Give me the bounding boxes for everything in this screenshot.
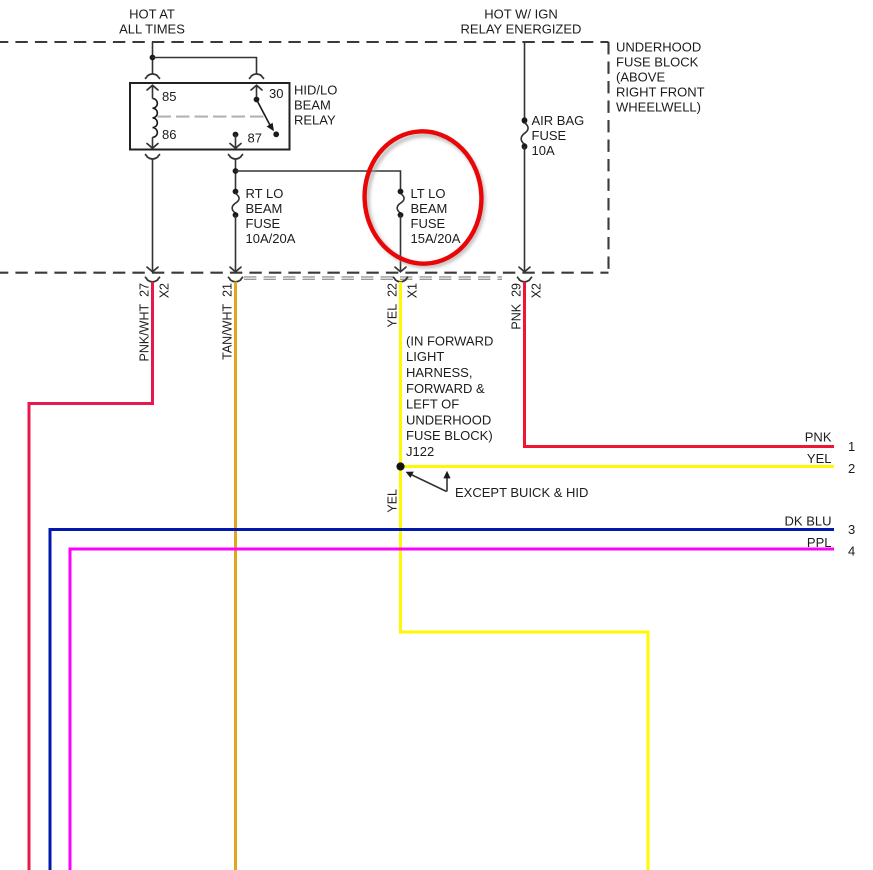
svg-text:YEL: YEL	[807, 451, 832, 466]
svg-text:FUSE BLOCK: FUSE BLOCK	[616, 55, 699, 70]
svg-text:10A: 10A	[532, 143, 555, 158]
wire PNK/WHT	[29, 282, 153, 870]
red annotation ellipse around LT LO BEAM FUSE	[361, 128, 485, 266]
svg-text:PNK 29: PNK 29	[510, 283, 524, 330]
connector cup exit 22	[393, 277, 408, 282]
connector above pin 85	[145, 74, 160, 79]
connector below pin 87	[228, 154, 243, 159]
svg-text:RELAY ENERGIZED: RELAY ENERGIZED	[461, 22, 582, 37]
wire branch to LT LO fuse	[236, 171, 401, 192]
svg-text:FUSE: FUSE	[411, 216, 446, 231]
svg-text:WHEELWELL): WHEELWELL)	[616, 100, 701, 115]
connector cup exit 27	[145, 277, 160, 282]
svg-text:TAN/WHT 21: TAN/WHT 21	[221, 283, 235, 360]
wire LT fuse to exit	[400, 215, 402, 271]
arrow to splice (EXCEPT BUICK & HID)	[411, 475, 447, 492]
wire RT fuse to exit	[235, 215, 237, 271]
svg-text:(ABOVE: (ABOVE	[616, 70, 665, 85]
node J to LT fuse	[233, 168, 239, 174]
wire air bag fuse to exit	[524, 147, 526, 271]
connector cup exit 29	[517, 277, 532, 282]
svg-text:AIR BAG: AIR BAG	[532, 113, 585, 128]
svg-text:YEL: YEL	[386, 489, 400, 513]
connector-row gray double dashed line	[244, 276, 502, 278]
svg-text:RELAY: RELAY	[294, 113, 336, 128]
svg-text:YEL 22: YEL 22	[386, 283, 400, 328]
pin 86	[152, 137, 154, 148]
svg-text:X1: X1	[406, 283, 420, 298]
arrow to YEL wire (EXCEPT BUICK & HID)	[446, 477, 448, 492]
wire PNK to pin 1	[525, 282, 835, 447]
connector below pin 86	[145, 154, 160, 159]
svg-text:RIGHT FRONT: RIGHT FRONT	[616, 85, 705, 100]
svg-text:87: 87	[248, 131, 262, 146]
wire YEL main	[401, 282, 649, 870]
wire pin86 to fuse block exit	[152, 159, 154, 271]
svg-text:LT LO: LT LO	[411, 186, 446, 201]
wire TAN/WHT	[234, 282, 237, 870]
underhood fuse block dashed border right	[607, 42, 609, 273]
svg-text:HID/LO: HID/LO	[294, 83, 337, 98]
relay switch blade	[257, 100, 270, 125]
svg-text:LEFT OF: LEFT OF	[406, 397, 459, 412]
pin 30	[256, 85, 258, 99]
red annotation ellipse shadow	[364, 132, 487, 269]
node junction above relay	[150, 55, 156, 61]
fuse AIR BAG 10A	[521, 117, 528, 149]
svg-text:86: 86	[162, 127, 176, 142]
pin 85	[152, 85, 154, 98]
node J122 splice	[396, 462, 404, 470]
svg-text:85: 85	[162, 89, 176, 104]
svg-text:PNK/WHT 27: PNK/WHT 27	[138, 283, 152, 362]
svg-text:HOT AT: HOT AT	[129, 7, 175, 22]
svg-text:3: 3	[848, 522, 855, 537]
svg-text:15A/20A: 15A/20A	[411, 231, 461, 246]
svg-text:FUSE: FUSE	[246, 216, 281, 231]
svg-text:HARNESS,: HARNESS,	[406, 365, 472, 380]
svg-text:RT LO: RT LO	[246, 186, 284, 201]
svg-text:10A/20A: 10A/20A	[246, 231, 296, 246]
svg-text:LIGHT: LIGHT	[406, 349, 444, 364]
wire pin87 down to RT LO fuse	[235, 159, 237, 192]
svg-text:30: 30	[269, 86, 283, 101]
svg-text:FUSE BLOCK): FUSE BLOCK)	[406, 428, 493, 443]
svg-text:HOT W/ IGN: HOT W/ IGN	[484, 7, 557, 22]
fuse LT LO BEAM 15A/20A	[397, 189, 404, 218]
svg-text:BEAM: BEAM	[411, 201, 448, 216]
svg-text:DK BLU: DK BLU	[785, 513, 832, 528]
relay coil	[153, 99, 158, 138]
svg-text:UNDERHOOD: UNDERHOOD	[616, 40, 701, 55]
svg-text:ALL TIMES: ALL TIMES	[119, 22, 185, 37]
svg-text:4: 4	[848, 544, 855, 559]
wire YEL branch to pin 2	[401, 465, 835, 468]
pin 87	[233, 132, 239, 138]
connector cup exit 21	[228, 277, 243, 282]
svg-text:(IN FORWARD: (IN FORWARD	[406, 333, 493, 348]
wire from hot-at-all-times into relay pin 85	[152, 42, 154, 74]
svg-text:BEAM: BEAM	[246, 201, 283, 216]
svg-text:X2: X2	[530, 283, 544, 298]
svg-text:FORWARD &: FORWARD &	[406, 381, 485, 396]
svg-text:2: 2	[848, 461, 855, 476]
relay internal dashed link	[158, 116, 265, 118]
wire PPL to pin 4	[70, 549, 834, 870]
svg-text:EXCEPT BUICK & HID: EXCEPT BUICK & HID	[455, 485, 588, 500]
underhood fuse block dashed border top	[0, 41, 609, 43]
wire DK BLU to pin 3	[50, 530, 834, 870]
svg-text:PNK: PNK	[805, 429, 832, 444]
svg-text:1: 1	[848, 439, 855, 454]
connector above pin 30	[249, 74, 264, 79]
svg-text:UNDERHOOD: UNDERHOOD	[406, 412, 491, 427]
svg-text:PPL: PPL	[807, 535, 832, 550]
fuse RT LO BEAM 10A/20A	[232, 189, 239, 218]
svg-text:X2: X2	[158, 283, 172, 298]
underhood fuse block dashed border bottom	[0, 272, 609, 274]
wire branch to pin 30	[153, 58, 257, 75]
svg-text:FUSE: FUSE	[532, 128, 567, 143]
wire hot-w-ign to air bag fuse	[524, 42, 526, 121]
relay box	[130, 83, 290, 150]
svg-text:J122: J122	[406, 444, 434, 459]
svg-text:BEAM: BEAM	[294, 98, 331, 113]
